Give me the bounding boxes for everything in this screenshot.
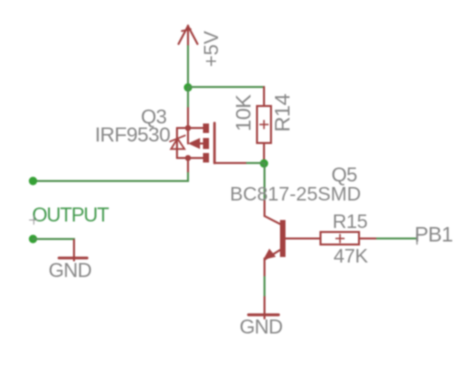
pin R14 top	[263, 87, 265, 106]
label origin cross	[30, 216, 39, 224]
svg-text:OUTPUT: OUTPUT	[32, 205, 109, 227]
pin Q3 source	[187, 108, 189, 128]
svg-text:10K: 10K	[232, 94, 256, 132]
ground symbol bottom	[249, 313, 279, 316]
node OUTPUT gnd stub	[29, 235, 37, 243]
wire R15 to PB1	[377, 238, 417, 240]
svg-text:+5V: +5V	[201, 30, 223, 67]
pin gnd bottom	[264, 297, 266, 319]
svg-text:IRF9530: IRF9530	[95, 124, 170, 147]
pin Q5 emitter wire	[264, 259, 266, 278]
label PB1 origin tick	[416, 234, 418, 244]
resistor R14	[257, 106, 271, 143]
svg-text:47K: 47K	[334, 246, 368, 268]
svg-text:GND: GND	[240, 317, 283, 339]
svg-text:BC817-25SMD: BC817-25SMD	[230, 184, 361, 206]
wire rail to MOSFET source	[187, 87, 189, 108]
node OUTPUT end	[29, 177, 37, 185]
wire R14 node to Q5 collector	[264, 163, 266, 201]
wire gate to R14 node	[247, 162, 264, 164]
pin gnd left	[73, 240, 75, 261]
pin Q3 drain	[187, 158, 189, 173]
supply +5V symbol	[179, 26, 198, 47]
node junction at +5V rail	[184, 83, 192, 91]
node junction below R14	[260, 159, 268, 167]
wire rail to R14	[188, 87, 264, 106]
svg-text:R14: R14	[270, 94, 294, 132]
transistor Q3 P-MOSFET	[170, 123, 215, 163]
svg-text:GND: GND	[49, 260, 92, 282]
pin R15 right	[359, 238, 377, 240]
svg-text:R15: R15	[333, 211, 368, 233]
wire drain to OUTPUT	[33, 173, 188, 181]
pin R14 bottom	[263, 143, 265, 163]
resistor R15	[321, 232, 360, 245]
wire emitter to gnd	[264, 277, 266, 297]
ground symbol left	[59, 257, 87, 260]
wire +5V to junction	[187, 46, 189, 88]
pin Q3 gate	[215, 162, 248, 164]
transistor Q5 NPN	[263, 201, 320, 277]
svg-text:PB1: PB1	[415, 224, 453, 247]
wire output to gnd	[33, 239, 74, 241]
